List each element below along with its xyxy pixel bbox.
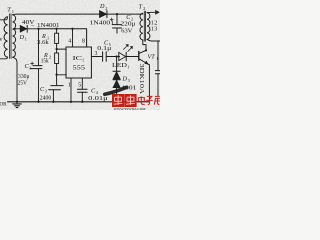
label IC1 xyxy=(73,55,85,63)
capacitor C3 xyxy=(49,75,64,102)
svg-text:1: 1 xyxy=(156,56,158,61)
ink smear artifact xyxy=(105,87,127,94)
svg-text:15k: 15k xyxy=(41,59,49,65)
ground rail wire xyxy=(8,101,150,103)
label C5 xyxy=(104,39,111,47)
svg-text:T: T xyxy=(7,7,11,14)
label D2 xyxy=(99,3,107,11)
svg-text:1: 1 xyxy=(68,83,71,89)
wire pin 7 stub xyxy=(57,48,67,50)
watermark char partial xyxy=(154,96,159,104)
wire pin 2/6 stub xyxy=(57,74,67,76)
wire secondary bottom lead down xyxy=(13,57,17,102)
svg-text:VT: VT xyxy=(148,53,156,60)
node D3 bottom xyxy=(115,101,117,103)
label D1 xyxy=(19,34,27,42)
svg-text:IC: IC xyxy=(73,55,83,62)
svg-text:T: T xyxy=(139,3,143,10)
svg-text:25V: 25V xyxy=(18,81,28,87)
label LED1 xyxy=(112,63,129,69)
svg-text:LED: LED xyxy=(112,63,128,69)
label R1 xyxy=(41,33,49,41)
node at D2 output xyxy=(116,13,118,15)
wire top rail to T2 xyxy=(117,13,143,15)
diode D2 xyxy=(100,11,118,18)
svg-text:63V: 63V xyxy=(121,27,133,34)
wire T2 secondary bottom lead xyxy=(147,39,160,41)
svg-text:1: 1 xyxy=(29,66,31,71)
svg-text:~: ~ xyxy=(31,23,34,29)
node pin7 xyxy=(55,48,57,50)
svg-text:2: 2 xyxy=(143,6,145,11)
label C1 xyxy=(25,63,32,71)
capacitor C2 xyxy=(110,14,121,33)
label T2 xyxy=(139,3,146,11)
svg-text:1: 1 xyxy=(25,37,27,42)
resistor R2 xyxy=(55,49,59,75)
node C3 bottom xyxy=(52,101,54,103)
capacitor C5 xyxy=(103,52,120,61)
label C4 xyxy=(91,87,99,95)
label VT1 xyxy=(148,53,159,61)
svg-text:3: 3 xyxy=(128,78,130,83)
top rail wire (secondary top to D2) xyxy=(17,13,100,15)
node C1 bottom xyxy=(37,101,39,103)
resistor R1 xyxy=(55,29,59,49)
svg-text:3.6k: 3.6k xyxy=(37,40,48,46)
capacitor C4 xyxy=(78,89,88,102)
svg-text:D: D xyxy=(19,34,25,41)
wire VCC rail xyxy=(39,29,87,47)
wire secondary tap lead xyxy=(13,28,21,30)
svg-text:1: 1 xyxy=(12,9,14,14)
svg-text:0.01μ: 0.01μ xyxy=(88,95,108,102)
wire pin 3 stub xyxy=(91,56,102,58)
capacitor C6 (edge) xyxy=(155,41,160,96)
transformer T2 xyxy=(140,10,160,50)
node R1 top xyxy=(55,28,57,30)
label 40V xyxy=(22,19,35,29)
wire secondary top lead to top rail xyxy=(13,13,17,16)
node pin4 top xyxy=(71,28,73,30)
svg-text:3: 3 xyxy=(45,89,47,94)
node D1 output xyxy=(37,28,39,30)
watermark char zi xyxy=(146,96,152,104)
wire primary top lead xyxy=(0,17,8,20)
svg-text:8: 8 xyxy=(82,39,85,45)
svg-text:D: D xyxy=(122,75,128,82)
wire T2 primary bottom to collector xyxy=(143,40,146,50)
diode D3 (two series diodes) xyxy=(113,57,120,102)
svg-text:4: 4 xyxy=(68,39,71,45)
capacitor C1 xyxy=(30,29,42,102)
wire pin 5 down xyxy=(81,78,83,89)
transistor VT1 xyxy=(136,50,150,101)
output arrow xyxy=(152,11,157,13)
svg-text:330μ: 330μ xyxy=(18,74,30,80)
svg-text:5: 5 xyxy=(78,82,81,88)
op IC1 555 box xyxy=(66,47,91,78)
watermark block 1 xyxy=(112,94,124,107)
svg-text:1N4001: 1N4001 xyxy=(90,20,115,27)
label T1 xyxy=(7,7,14,15)
transformer T1 xyxy=(0,14,21,102)
svg-text:555: 555 xyxy=(73,64,86,71)
node transformer/ground xyxy=(16,101,18,103)
wire pin 4 xyxy=(72,29,74,47)
svg-text:2: 2 xyxy=(49,54,51,59)
svg-text:D: D xyxy=(99,3,105,10)
svg-text:2: 2 xyxy=(105,6,107,11)
label C2 xyxy=(126,14,133,22)
LED LED1 xyxy=(119,45,136,61)
svg-text:1N4001: 1N4001 xyxy=(37,22,60,29)
wire primary bottom lead xyxy=(0,57,8,59)
watermark block 2 xyxy=(124,94,136,107)
watermark char dian xyxy=(138,96,145,104)
svg-text:3DK10A: 3DK10A xyxy=(138,64,145,95)
T2 core xyxy=(144,11,145,41)
svg-text:0.1μ: 0.1μ xyxy=(97,46,111,52)
ground symbol xyxy=(13,102,22,108)
svg-text:OR: OR xyxy=(0,103,7,108)
node C5/LED/D3 xyxy=(115,55,117,57)
label R2 xyxy=(43,52,51,60)
svg-text:1: 1 xyxy=(127,64,129,69)
svg-text:WWW.SSWDZ.COM: WWW.SSWDZ.COM xyxy=(114,107,146,110)
T1 core xyxy=(10,14,11,59)
label C3 xyxy=(40,86,47,94)
node collector xyxy=(145,49,147,51)
wire pin 1 to ground rail xyxy=(70,78,72,102)
T1 primary winding xyxy=(4,17,7,57)
T1 secondary winding xyxy=(13,15,16,57)
diode D1 xyxy=(20,25,38,32)
wire T2 secondary top lead xyxy=(147,11,152,13)
svg-text:1: 1 xyxy=(82,57,84,62)
svg-text:13: 13 xyxy=(151,27,158,33)
node pin2/6 xyxy=(55,73,57,75)
T2 primary winding xyxy=(140,13,143,40)
node C4 bottom xyxy=(81,101,83,103)
svg-text:2400: 2400 xyxy=(40,94,52,101)
svg-text:v: v xyxy=(0,37,3,43)
node pin1 bottom xyxy=(70,101,72,103)
T2 secondary winding xyxy=(147,13,150,40)
label D3 xyxy=(122,75,130,83)
